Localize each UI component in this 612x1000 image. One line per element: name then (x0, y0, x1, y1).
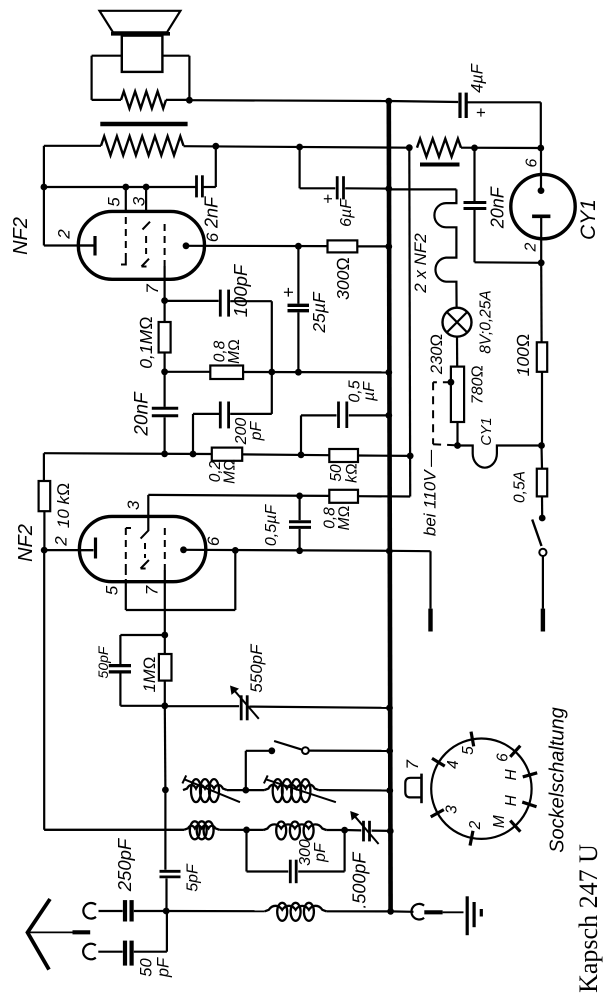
resistor 100 ohm (537, 263, 547, 446)
capacitor 0.5uF cathode bypass (301, 402, 389, 455)
svg-text:6: 6 (204, 536, 223, 546)
speaker LS1 magnet/frame (122, 36, 163, 72)
resistor voice-coil winding (121, 91, 166, 108)
tube U1 NF2 envelope (78, 211, 204, 279)
svg-text:CY1: CY1 (479, 417, 495, 445)
label 0.8 Mohm (2) (322, 506, 354, 531)
resistor 50 kohm (329, 449, 358, 462)
wire pin7net down to RF (164, 706, 167, 790)
junction 230V tap (448, 379, 455, 386)
junction pin7 t1 (161, 297, 168, 304)
svg-text:3: 3 (124, 500, 143, 510)
svg-text:5pF: 5pF (185, 863, 202, 892)
tube U2 cathode bar pin2 (44, 538, 95, 559)
svg-text:3: 3 (444, 805, 461, 814)
svg-text:550pF: 550pF (247, 643, 266, 693)
socket label 6 (495, 753, 512, 762)
junction 2nF/plate line (212, 143, 219, 150)
wire pin7 t2 down (164, 582, 166, 635)
svg-text:0,5µF: 0,5µF (263, 504, 280, 546)
wire grid/cathode line y454 (44, 453, 410, 456)
svg-text:bei 110V —: bei 110V — (420, 449, 439, 536)
resistor output-transformer primary (101, 136, 184, 155)
resistor 0.1 Mohm (159, 301, 171, 372)
wire bus to earth jack (391, 910, 414, 913)
svg-text:+: + (471, 107, 490, 117)
junction pin3 wire (143, 184, 150, 191)
label 100 ohm (513, 334, 533, 377)
junction L1/L2 tap (242, 787, 249, 794)
svg-text:780Ω: 780Ω (470, 365, 487, 404)
svg-text:50pF: 50pF (137, 957, 172, 978)
junction pin7 network top (161, 632, 168, 639)
wire pin5 to tube1 (125, 187, 127, 213)
label CY1 pin2 (523, 242, 540, 252)
junction y496/0.5uF2 (296, 493, 303, 500)
inductor L4 (264, 822, 327, 840)
capacitor 5pF (160, 790, 181, 911)
resistor smoothing choke (417, 139, 461, 165)
junction 550pF/bus (386, 705, 393, 712)
resistor 1 Mohm (159, 635, 172, 706)
junction choke left (406, 144, 413, 151)
junction 6uF/bus (385, 185, 392, 192)
wire pin7 to 100pF (165, 300, 219, 302)
svg-text:50kΩ: 50kΩ (328, 463, 361, 483)
label 0.5uF (2) (263, 504, 280, 546)
wire L2 to bus (319, 789, 390, 792)
wire pin3 up (147, 495, 149, 517)
svg-text:0,5µF: 0,5µF (346, 380, 378, 402)
junction anode/25uF (295, 243, 302, 250)
speaker LS1 cone (100, 11, 181, 34)
lamp 8V 0.25A (443, 308, 472, 337)
tube U2 grid g1 (pin5) (126, 528, 131, 582)
label 1 Mohm (141, 657, 159, 693)
mains terminal left (428, 609, 432, 632)
wire B+ feed vertical x410 (408, 148, 411, 497)
inductor L1 (with core) (182, 775, 240, 802)
junction speaker/B+ line (186, 97, 193, 104)
socket label 3 (444, 805, 461, 814)
wire dashed 110V tap (433, 382, 456, 445)
junction anode2/bus (386, 548, 393, 555)
label 50pF antenna (137, 957, 172, 978)
capacitor 250pF (99, 900, 166, 921)
svg-text:100pF: 100pF (230, 263, 251, 317)
tube U2 anode pin6 (180, 546, 187, 553)
wire chassis bus (thick vertical) (389, 101, 391, 911)
inductor L5 (265, 903, 327, 921)
socket label H2 (503, 794, 520, 806)
svg-text:200pF: 200pF (233, 418, 265, 446)
svg-text:NF2: NF2 (15, 524, 37, 562)
tube U2 grid g2 (pin3) (141, 516, 149, 568)
label 5pF (185, 863, 202, 892)
junction CY1 top node (537, 145, 544, 152)
wire mains left lead (429, 551, 431, 608)
junction y454 200pF (190, 451, 197, 458)
svg-text:4: 4 (445, 760, 462, 769)
label 250pF (114, 837, 135, 892)
socket label 2 (467, 820, 484, 830)
label 200pF (233, 418, 265, 446)
tube CY1 rectifier (511, 148, 575, 263)
svg-text:2: 2 (467, 820, 484, 830)
wire plate-resistor line y147 (184, 146, 410, 148)
label pin7 t2 (143, 585, 162, 595)
tube U2 grid g3 (pin7) (164, 528, 166, 582)
junction y147/6uF (296, 144, 303, 151)
capacitor 550pF variable (231, 687, 259, 721)
capacitor 0.5uF (2) (289, 496, 311, 551)
svg-text:2nF: 2nF (201, 196, 221, 229)
socket diagram circle (431, 732, 537, 846)
junction heater node left (454, 442, 461, 449)
junction anode2/0.5uF2 (296, 547, 303, 554)
heater 2x NF2 (bumps) (434, 189, 456, 307)
wire anode line to bus (357, 245, 389, 247)
wire L3-L4 (247, 829, 264, 831)
label 50 kohm (328, 463, 361, 483)
svg-text:6: 6 (524, 158, 541, 167)
svg-text:6: 6 (495, 753, 512, 762)
label 4uF (468, 63, 490, 117)
socket speaker icon (405, 774, 421, 804)
capacitor 50pF (tube2) (109, 635, 165, 706)
label 6uF (318, 194, 355, 227)
label lamp rating (477, 290, 494, 354)
svg-text:250pF: 250pF (114, 837, 135, 892)
inductor L3 (184, 821, 219, 839)
capacitor 300pF (247, 830, 345, 883)
junction anode line/bus (385, 243, 392, 250)
svg-text:0,8MΩ: 0,8MΩ (212, 339, 244, 364)
label CY1 (577, 199, 600, 240)
label 0.2 Mohm (207, 459, 239, 484)
svg-text:H: H (503, 769, 520, 781)
svg-text:6µF: 6µF (338, 198, 355, 227)
junction y372/25uF (295, 369, 302, 376)
label 100pF (230, 263, 251, 317)
junction switch/bus (386, 748, 393, 755)
tube U2 NF2 envelope (79, 516, 205, 581)
svg-text:H: H (503, 794, 520, 806)
wire 10k to pin2 t2 (43, 511, 45, 550)
label 2 x NF2 (411, 233, 430, 294)
svg-text:5: 5 (460, 746, 477, 755)
capacitor 20nF coupling (152, 372, 178, 455)
junction pin7 network bottom (161, 702, 168, 709)
svg-text:5: 5 (104, 197, 123, 207)
capacitor 500pF variable (351, 812, 390, 844)
junction L4/300pF (341, 827, 348, 834)
wire L4 to 500pF (326, 829, 361, 832)
tube U1 anode pin6 (183, 242, 328, 249)
wire heater feed (389, 188, 457, 191)
wire grid line tube1 (pins 5,3) (44, 146, 196, 246)
label CY1 heater (479, 417, 495, 445)
socket label H1 (503, 769, 520, 781)
label 230 ohm (428, 334, 446, 375)
mains terminal right (541, 609, 545, 632)
svg-text:0,8MΩ: 0,8MΩ (322, 506, 354, 531)
junction heater node right (538, 442, 545, 449)
svg-text:6: 6 (203, 232, 222, 242)
label pin7 t1 (143, 284, 162, 294)
wire pin5 loop t2 (126, 550, 236, 610)
junction y454 0.5uF (298, 452, 305, 459)
junction L3/L4 tap (243, 827, 250, 834)
wire voice-coil to junction (166, 99, 189, 101)
wire B+ top line (189, 100, 458, 102)
svg-text:.500pF: .500pF (349, 852, 369, 909)
svg-text:5: 5 (103, 585, 122, 595)
junction y454 20nF (161, 451, 168, 458)
svg-text:3: 3 (129, 196, 148, 206)
label 10 kohm (54, 483, 73, 528)
wire 550pF line (165, 706, 390, 708)
svg-text:8V;0,25A: 8V;0,25A (477, 290, 494, 354)
antenna symbol (28, 899, 91, 970)
junction y454 right (407, 453, 414, 460)
label 300pF (297, 839, 329, 866)
label CY1 pin6 (524, 158, 541, 167)
junction y372 left (161, 368, 168, 375)
tube U1 grid g2 (pin3) (142, 222, 151, 267)
svg-text:0,5A: 0,5A (511, 471, 528, 503)
svg-text:10 kΩ: 10 kΩ (54, 483, 73, 528)
transformer core (100, 122, 187, 127)
svg-text:7: 7 (143, 284, 162, 294)
svg-text:Kapsch 247 U: Kapsch 247 U (574, 844, 603, 993)
wire y148 choke segment (461, 147, 541, 150)
label 0.8 Mohm (1) (212, 339, 244, 364)
svg-text:300Ω: 300Ω (333, 257, 353, 300)
svg-text:1MΩ: 1MΩ (141, 657, 159, 693)
resistor 0.8 Mohm (2) (329, 490, 358, 503)
label 20nF PSU (488, 186, 508, 229)
label 0.5uF bypass (346, 380, 378, 402)
wire left rail down (44, 550, 184, 830)
junction antenna node (163, 908, 170, 915)
junction y372/100pF (268, 369, 275, 376)
svg-text:0,2MΩ: 0,2MΩ (207, 459, 239, 484)
socket earth jack (411, 904, 424, 920)
svg-text:50pF: 50pF (95, 645, 111, 678)
svg-text:2: 2 (52, 536, 71, 547)
wire grid line tube2 y496 (148, 495, 410, 497)
svg-text:Sockelschaltung: Sockelschaltung (547, 707, 569, 853)
inductor L2 (with core) (264, 775, 336, 802)
label Sockelschaltung (547, 707, 569, 853)
switch S1 band (246, 741, 390, 790)
junction pin5 wire (122, 184, 129, 191)
svg-text:M: M (491, 815, 508, 828)
svg-text:NF2: NF2 (10, 217, 32, 255)
label 500pF (349, 852, 369, 909)
switch S2 mains (532, 515, 546, 609)
label pin6 t2 (204, 536, 223, 546)
wire grid2 line y372 (165, 371, 389, 374)
tube U1 grid g3 (pin7) (164, 224, 166, 301)
label pin6 t1 (203, 232, 222, 242)
resistor 0.2 Mohm (212, 448, 242, 461)
wire pin3 to tube1 (145, 187, 147, 213)
junction y372/bus (385, 369, 392, 376)
resistor 10 kohm (39, 481, 51, 511)
wire primary left lead (44, 145, 101, 147)
capacitor 20nF (PSU) (464, 148, 542, 263)
label 300 ohm (333, 257, 353, 300)
capacitor 100pF (220, 290, 228, 317)
wire antenna coil line y830 (44, 829, 246, 831)
capacitor 25uF electrolytic (288, 246, 310, 372)
junction L2/bus (386, 787, 393, 794)
junction 500pF/bus (387, 828, 394, 835)
label NF2 tube1 (10, 217, 32, 255)
label 25uF (279, 287, 330, 334)
junction 20nF/CY1 cathode (538, 259, 545, 266)
junction bus/top line (385, 98, 392, 105)
socket label 4 (445, 760, 462, 769)
svg-text:7: 7 (403, 760, 422, 770)
svg-text:+: + (318, 194, 337, 204)
capacitor 2nF (197, 175, 203, 197)
wire 100pF right (230, 301, 272, 372)
wire lamp to dropper (456, 337, 458, 367)
socket antenna jack2 (83, 944, 96, 960)
svg-text:7: 7 (143, 585, 162, 595)
label pin5 t2 (103, 585, 122, 595)
wire speaker loop right (162, 56, 189, 100)
wire speaker loop left (92, 56, 122, 100)
tube U1 cathode bar pin2 (78, 236, 95, 256)
junction anode2/pin5loop (232, 547, 239, 554)
wire dropper to CY1 heater (456, 422, 458, 446)
capacitor 50pF antenna (98, 911, 167, 966)
title Kapsch 247 U (574, 844, 603, 993)
fuse 0.5A (537, 446, 547, 519)
wire y454 to 10k (43, 453, 45, 481)
wire antenna line to bus (166, 910, 390, 913)
junction choke right (471, 145, 478, 152)
svg-text:100Ω: 100Ω (513, 334, 533, 377)
svg-text:20nF: 20nF (132, 391, 153, 437)
label pin5 t1 (104, 197, 123, 207)
resistor 300 ohm (328, 240, 358, 252)
label 2nF (201, 196, 221, 229)
svg-text:2: 2 (523, 242, 540, 252)
svg-text:2: 2 (54, 229, 73, 240)
capacitor 4uF electrolytic (460, 93, 466, 118)
socket label 7 (403, 760, 422, 770)
wire 2nF to plate line (202, 146, 215, 187)
label 20nF coupling (132, 391, 153, 437)
resistor dropper 780 ohm (451, 367, 464, 422)
svg-text:0,1MΩ: 0,1MΩ (136, 316, 156, 368)
svg-text:4µF: 4µF (468, 63, 486, 93)
resistor 0.8 Mohm (1) (210, 366, 243, 380)
socket label M (491, 815, 508, 828)
earth plug pin (424, 910, 463, 914)
capacitor 200pF (193, 372, 272, 454)
junction antenna-line/bus (387, 908, 394, 915)
socket label 5 (460, 746, 477, 755)
label 0.1 Mohm (136, 316, 156, 368)
heater CY1 (bump) (458, 446, 542, 468)
svg-text:CY1: CY1 (577, 199, 600, 240)
label bei 110V (420, 449, 439, 536)
junction RF node1 (162, 787, 169, 794)
label pin3 t2 (124, 500, 143, 510)
junction grid-line left (41, 184, 48, 191)
label pin2 t2 (52, 536, 71, 547)
tube U1 grid g1 (pin5) (121, 217, 126, 265)
ground symbol (467, 896, 481, 935)
svg-text:25µF: 25µF (309, 291, 329, 334)
label NF2 tube2 (15, 524, 37, 562)
wire 4uF right to CY1 (466, 102, 541, 148)
wire anode t2 line (184, 550, 431, 551)
label pin3 t1 (129, 196, 148, 206)
label 0.5A (511, 471, 528, 503)
svg-text:20nF: 20nF (488, 186, 508, 229)
capacitor 6uF electrolytic (300, 147, 389, 199)
junction 0.5uF/bus (385, 412, 392, 419)
label 50pF tube2 (95, 645, 111, 678)
junction pin2 t2 (41, 547, 48, 554)
label pin2 t1 (54, 229, 73, 240)
wire L1-L2 (227, 789, 264, 791)
svg-text:+: + (279, 287, 299, 298)
socket antenna jack1 (83, 903, 96, 919)
svg-text:2 x NF2: 2 x NF2 (411, 233, 430, 294)
svg-text:230Ω: 230Ω (428, 334, 446, 375)
label 550pF (247, 643, 266, 693)
label 780 ohm (470, 365, 487, 404)
